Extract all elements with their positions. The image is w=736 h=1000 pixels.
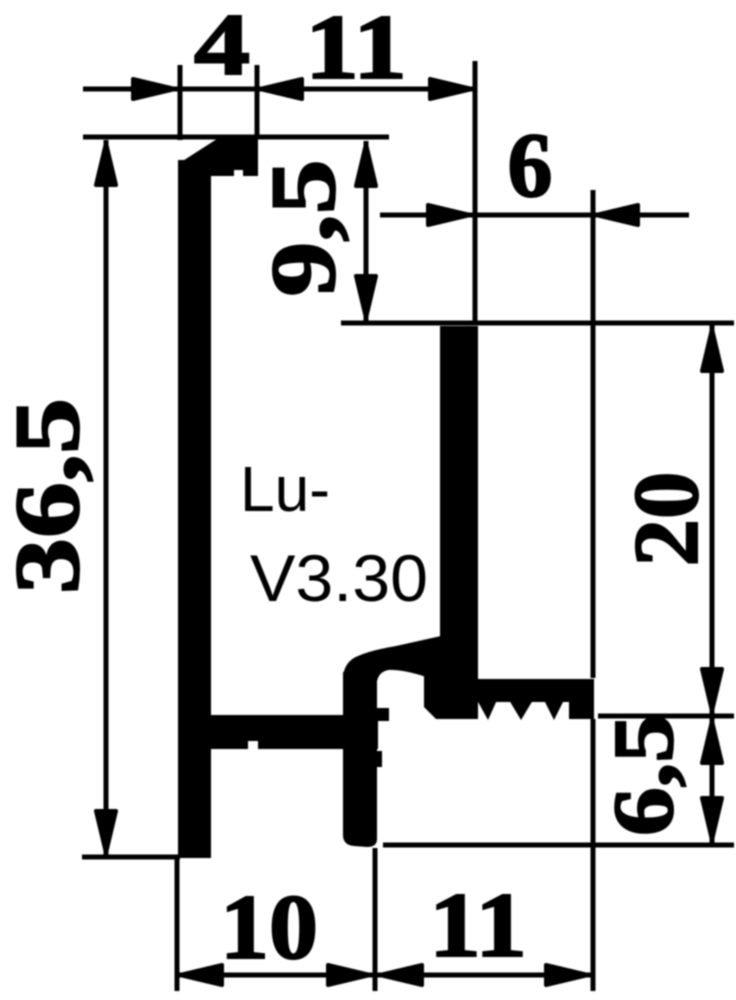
- arrow 4 right / 11 left: [260, 79, 302, 99]
- horizontal reference line y=137: [83, 135, 389, 140]
- arrow 6 left: [428, 205, 470, 225]
- horizontal reference line y=323: [341, 321, 734, 326]
- horizontal reference line y=857: [82, 855, 180, 860]
- arrow 4 left: [133, 79, 175, 99]
- extension line x=257 top: [255, 65, 260, 139]
- tooth 1: [477, 700, 497, 720]
- profile foot: [424, 676, 478, 719]
- extension line x=593 lower: [591, 719, 596, 991]
- extension line x=475: [473, 61, 478, 325]
- svg-text:10: 10: [220, 876, 318, 978]
- dimension line 6 y=215: [380, 213, 689, 218]
- arrow 36,5 top: [96, 143, 116, 185]
- arrow 11 right: [430, 79, 472, 99]
- arrow 11b left: [380, 965, 422, 985]
- arrow 11b right: [546, 965, 588, 985]
- tooth 3: [544, 700, 564, 720]
- svg-text:6: 6: [508, 114, 553, 216]
- arrow 6 right: [596, 205, 638, 225]
- horizontal reference line y=845: [383, 843, 734, 848]
- leg right stub upper: [374, 708, 389, 721]
- horizontal reference line y=716: [598, 714, 734, 719]
- extension line x=178 top: [178, 65, 183, 140]
- arrow 20 top: [702, 329, 722, 371]
- profile right wall: [440, 326, 478, 704]
- arrow 20 bottom: [702, 669, 722, 711]
- svg-text:4: 4: [194, 0, 250, 94]
- dimension line 9,5 x=366: [364, 141, 369, 321]
- svg-text:6,5: 6,5: [595, 714, 691, 836]
- extension line x=375 bottom: [373, 848, 378, 991]
- svg-text:11: 11: [429, 874, 527, 976]
- bottom dimension line y=975: [177, 973, 595, 978]
- profile arm right block: [569, 679, 594, 719]
- svg-text:9,5: 9,5: [252, 160, 354, 297]
- arrow 10 left: [180, 965, 222, 985]
- dimension line 36,5 x=106: [104, 140, 109, 856]
- svg-text:Lu-: Lu-: [240, 453, 330, 525]
- arrow 6,5 top: [702, 721, 722, 763]
- extension line x=593 upper: [591, 190, 596, 678]
- svg-text:20: 20: [615, 472, 717, 567]
- svg-text:36,5: 36,5: [0, 398, 98, 594]
- arrow 10 right: [328, 965, 370, 985]
- profile center leg: [343, 672, 377, 847]
- top dimension line y=89: [83, 87, 476, 92]
- extension line x=177 bottom: [175, 858, 180, 991]
- svg-text:V3.30: V3.30: [250, 541, 428, 615]
- tooth 2: [509, 700, 533, 720]
- arrow 9,5 top: [356, 144, 376, 186]
- arrow 6,5 bottom: [702, 798, 722, 840]
- dimension line 20 and 6,5 x=712: [710, 325, 715, 845]
- profile elbow curve: [343, 636, 441, 692]
- arrow 9,5 bottom: [356, 276, 376, 318]
- arrow 36,5 bottom: [96, 811, 116, 853]
- profile left wall: [178, 160, 211, 858]
- svg-text:11: 11: [305, 0, 407, 98]
- profile right arm: [478, 679, 594, 702]
- leg right stub lower: [374, 751, 382, 767]
- profile bottom crossbar: [205, 715, 378, 749]
- profile top flange with chamfer and notch: [178, 137, 258, 176]
